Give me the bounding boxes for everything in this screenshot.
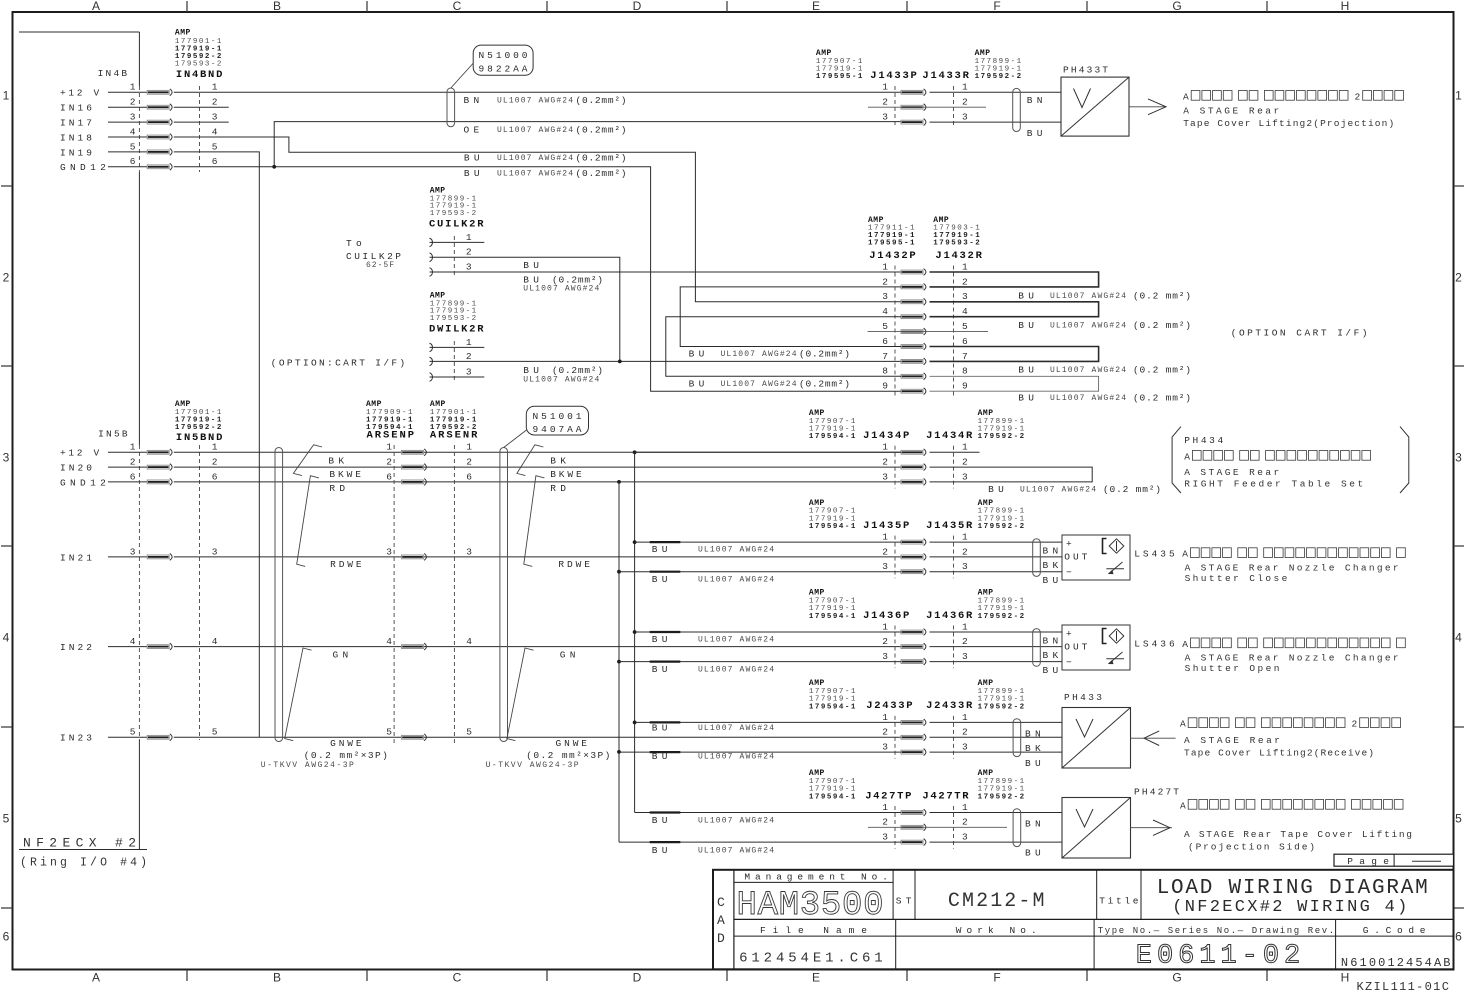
wire IN18 to J1432P pin3 (BU) (174, 137, 901, 302)
svg-text:G: G (1172, 0, 1181, 13)
wire J427TP pin1 feed from +12V bus (635, 812, 901, 814)
svg-text:5: 5 (1455, 812, 1462, 826)
svg-text:3: 3 (1455, 451, 1462, 465)
wire colour label RDWE (right) (558, 559, 590, 570)
wire label BU (GND12) UL1007 AWG#24(0.2mm2) (464, 168, 627, 179)
svg-text:5: 5 (466, 727, 472, 738)
IN5B pin 3 (IN21) label, stub and crimp (60, 546, 218, 563)
svg-text:H: H (1341, 971, 1350, 985)
wire +12V row to J1434P pin1 (174, 450, 901, 454)
svg-text:AMP: AMP (809, 589, 825, 598)
label (OPTION CART I/F) (1231, 328, 1368, 339)
svg-text:179594-1: 179594-1 (809, 613, 856, 621)
svg-text:J2433R: J2433R (926, 700, 973, 712)
wire colour label GN (left) (333, 649, 349, 660)
svg-text:1: 1 (962, 442, 968, 453)
connector pair J1436P / J1436R (AMP part lists) (809, 589, 1025, 622)
svg-text:UL1007 AWG#24: UL1007 AWG#24 (698, 575, 774, 584)
svg-text:3: 3 (882, 651, 888, 662)
wire colour label GNWE and cable spec (right) (486, 738, 611, 770)
svg-text:U-TKVV AWG24-3P: U-TKVV AWG24-3P (486, 761, 579, 770)
connector pair J1433P / J1433R (AMP part lists) (816, 49, 1022, 82)
svg-text:2: 2 (466, 457, 472, 468)
wire J1434P pin1 feed from +12V bus (635, 451, 901, 453)
svg-text:1: 1 (962, 532, 968, 543)
wire label BN UL1007 AWG#24(0.2mm2) (464, 95, 627, 106)
svg-text:4: 4 (386, 636, 392, 647)
svg-text:6: 6 (130, 471, 136, 482)
svg-text:2: 2 (212, 97, 218, 108)
enclosure box NF2ECX #2 (Ring I/O #4) (19, 32, 147, 870)
svg-text:8: 8 (962, 366, 968, 377)
title block ST CM212-M (896, 890, 1045, 913)
svg-text:UL1007 AWG#24: UL1007 AWG#24 (497, 97, 573, 106)
svg-text:IN4B: IN4B (98, 68, 128, 79)
connector pair J1435P / J1435R (AMP part lists) (809, 499, 1025, 532)
svg-text:UL1007 AWG#24: UL1007 AWG#24 (698, 636, 774, 645)
svg-text:1: 1 (962, 621, 968, 632)
svg-text:AMP: AMP (809, 409, 825, 418)
J1432P jumper pin2 to pin6 (680, 287, 901, 347)
svg-text:E: E (812, 971, 820, 985)
svg-text:179594-1: 179594-1 (809, 793, 856, 801)
svg-text:AMP: AMP (975, 49, 991, 58)
svg-text:J1436R: J1436R (926, 610, 973, 622)
wire IN22 row to J1436P pin2 (174, 646, 901, 648)
svg-text:179592-2: 179592-2 (978, 793, 1025, 801)
svg-text:(0.2 mm²×3P): (0.2 mm²×3P) (304, 750, 388, 761)
svg-text:(OPTION CART I/F): (OPTION CART I/F) (1231, 328, 1368, 339)
wire label BU (0.2mm2) UL1007 AWG#24 (DWILK2R pin2) (523, 365, 603, 384)
svg-text:F: F (993, 0, 1000, 13)
svg-text:179593-2: 179593-2 (430, 210, 477, 218)
svg-text:2: 2 (882, 457, 888, 468)
svg-text:3: 3 (466, 261, 472, 272)
svg-text:(0.2mm²): (0.2mm²) (576, 95, 627, 106)
CUILK2R pins with mating arcs (430, 232, 472, 278)
twisted pair marks left of ARSENP (285, 445, 322, 741)
svg-text:5: 5 (130, 141, 136, 152)
svg-text:2: 2 (882, 97, 888, 108)
wire label BU UL1007 AWG#24(0.2 mm2) J1432R a (1018, 290, 1191, 301)
svg-text:C: C (717, 895, 725, 910)
connector IN5B / IN5BND (AMP part list) (98, 400, 222, 444)
svg-text:(0.2mm²): (0.2mm²) (799, 378, 850, 389)
cable sheath on J1433R wires (1013, 88, 1021, 131)
input arrow into PH433 (receive) (1131, 731, 1176, 746)
svg-text:1: 1 (962, 712, 968, 723)
svg-text:(0.2mm²): (0.2mm²) (576, 153, 627, 164)
wire IN21 row to J1435P pin2 (174, 556, 901, 558)
svg-text:179592-2: 179592-2 (175, 424, 222, 432)
svg-text:(0.2mm²): (0.2mm²) (576, 168, 627, 179)
svg-text:1: 1 (212, 442, 218, 453)
wire J427TP pin3 feed from GND bus (619, 841, 901, 843)
svg-text:9: 9 (882, 381, 888, 392)
svg-text:2: 2 (962, 817, 968, 828)
cable sheath J2433R (1013, 719, 1021, 757)
wire label BU (IN18) UL1007 AWG#24(0.2mm2) (464, 153, 627, 164)
wire CUILK2R pin2 BU to J1432P pin7 junction (430, 257, 620, 361)
svg-text:4: 4 (1455, 631, 1462, 645)
svg-text:UL1007 AWG#24: UL1007 AWG#24 (1050, 322, 1126, 331)
J1432R loopback pins3-4 (930, 302, 1099, 317)
wire colour label RDWE (left) (330, 559, 362, 570)
svg-text:(0.2 mm²): (0.2 mm²) (1133, 320, 1191, 331)
svg-text:UL1007 AWG#24: UL1007 AWG#24 (721, 380, 797, 389)
wire colour label GN (right) (560, 649, 576, 660)
svg-text:AMP: AMP (978, 409, 994, 418)
svg-text:1: 1 (130, 82, 136, 93)
svg-text:HAM3500: HAM3500 (737, 887, 884, 925)
wire label BU UL1007 AWG#24 (J1436P pin2) (652, 634, 774, 645)
svg-text:A: A (1182, 639, 1188, 650)
svg-text:(Projection Side): (Projection Side) (1188, 842, 1315, 853)
svg-text:179592-2: 179592-2 (430, 424, 477, 432)
thick wire overlays at bus branches (sensor groups) (650, 542, 681, 842)
svg-text:J1435R: J1435R (926, 520, 973, 532)
svg-text:4: 4 (882, 306, 888, 317)
svg-text:UL1007 AWG#24: UL1007 AWG#24 (523, 285, 599, 294)
wire CUILK2R pin1 stub (430, 241, 485, 243)
svg-text:2: 2 (1355, 91, 1361, 102)
svg-text:AMP: AMP (809, 679, 825, 688)
svg-text:1: 1 (882, 802, 888, 813)
optical sensor LS436 with description (1062, 625, 1405, 674)
svg-text:6: 6 (1455, 930, 1462, 944)
wire label BU UL1007 AWG#24(0.2 mm2) J1432R c (1018, 365, 1191, 376)
J1432 pin5 unused stub (868, 331, 988, 333)
svg-text:J1432R: J1432R (935, 250, 982, 262)
wire IN19 vertical drop to IN23 row (174, 152, 259, 737)
twisted pair marks right of ARSENR (507, 445, 545, 741)
wire label BN at PH433T (1027, 95, 1043, 106)
svg-text:J427TR: J427TR (922, 790, 969, 802)
svg-text:A: A (1182, 549, 1188, 560)
svg-text:UL1007 AWG#24: UL1007 AWG#24 (497, 170, 573, 179)
svg-text:179592-2: 179592-2 (978, 523, 1025, 531)
output arrow from PH433T (1129, 99, 1166, 115)
wire J1436P pin1 feed from +12V bus (635, 631, 901, 633)
svg-text:4: 4 (962, 306, 968, 317)
svg-text:(0.2 mm²): (0.2 mm²) (1133, 365, 1191, 376)
svg-text:4: 4 (130, 636, 136, 647)
svg-text:J1433R: J1433R (922, 70, 969, 82)
IN5B pin 5 (IN23) label, stub and crimp (60, 727, 218, 744)
wires J1435R to LS435 (930, 542, 1063, 572)
svg-text:3: 3 (212, 546, 218, 557)
svg-text:U-TKVV AWG24-3P: U-TKVV AWG24-3P (261, 761, 354, 770)
cable sheath J1435R (1033, 539, 1041, 577)
svg-text:1: 1 (962, 261, 968, 272)
svg-text:2: 2 (466, 351, 472, 362)
svg-text:1: 1 (1455, 89, 1462, 103)
wire label BU UL1007 AWG#24(0.2mm2) at J1432P pin7 (689, 348, 850, 359)
svg-text:6: 6 (962, 336, 968, 347)
wire J1433R pin3 BU to PH433T (930, 121, 1062, 123)
svg-text:3: 3 (3, 451, 10, 465)
svg-text:UL1007 AWG#24: UL1007 AWG#24 (497, 154, 573, 163)
title block File Name 612454E1.C61 (739, 925, 883, 967)
svg-text:179592-2: 179592-2 (978, 613, 1025, 621)
svg-text:6: 6 (386, 471, 392, 482)
svg-text:1: 1 (3, 89, 10, 103)
sheet code KZIL111-01C (1357, 980, 1449, 992)
wire DWILK2R pin2 BU to J1432P pin7 (430, 360, 902, 364)
svg-text:AMP: AMP (816, 49, 832, 58)
DWILK2R pins with mating arcs (430, 337, 472, 383)
svg-text:5: 5 (3, 812, 10, 826)
svg-text:OUT: OUT (1064, 642, 1087, 653)
svg-text:A: A (1180, 719, 1186, 730)
svg-text:AMP: AMP (809, 499, 825, 508)
svg-text:A: A (92, 0, 100, 13)
svg-text:3: 3 (130, 112, 136, 123)
wire J1436P pin3 feed from GND bus (619, 661, 901, 663)
connector pair J427TP / J427TR (AMP part lists) (809, 769, 1025, 802)
svg-text:UL1007 AWG#24: UL1007 AWG#24 (698, 847, 774, 856)
svg-text:File Name: File Name (760, 925, 867, 936)
svg-text:AMP: AMP (978, 589, 994, 598)
balloon N51001 / 9407AA with leader (504, 406, 589, 447)
svg-text:UL1007 AWG#24: UL1007 AWG#24 (721, 350, 797, 359)
label (OPTION:CART I/F) (271, 358, 405, 369)
label To CUILK2P 62-5F (346, 238, 401, 270)
wire label BU UL1007 AWG#24 (J427TP pin3) (652, 845, 774, 856)
svg-text:(0.2mm²): (0.2mm²) (576, 125, 627, 136)
svg-text:2: 2 (882, 636, 888, 647)
svg-text:LOAD WIRING DIAGRAM: LOAD WIRING DIAGRAM (1157, 877, 1428, 900)
svg-text:IN5B: IN5B (98, 429, 128, 440)
svg-text:UL1007 AWG#24: UL1007 AWG#24 (698, 816, 774, 825)
title block Work No. (956, 925, 1037, 936)
balloon N51000 / 9822AA with leader (451, 45, 533, 88)
svg-text:4: 4 (212, 636, 218, 647)
svg-text:UL1007 AWG#24: UL1007 AWG#24 (1050, 394, 1126, 403)
svg-text:3: 3 (882, 112, 888, 123)
svg-text:179593-2: 179593-2 (175, 60, 222, 68)
connector pair J2433P / J2433R (AMP part lists) (809, 679, 1025, 712)
connector pair J1434P / J1434R (AMP part lists) (809, 409, 1025, 442)
svg-text:3: 3 (882, 561, 888, 572)
J1436P pin housings (dashed) and crimps (882, 621, 968, 668)
svg-text:2: 2 (962, 97, 968, 108)
svg-text:AMP: AMP (430, 186, 446, 195)
J1432R loopback pins6-7 (930, 347, 1099, 362)
svg-text:7: 7 (882, 351, 888, 362)
wire colour labels BK BKWE RD (left set) (328, 455, 361, 494)
svg-text:CM212-M: CM212-M (948, 890, 1045, 913)
wire DWILK2R pin3 stub (430, 376, 485, 378)
svg-text:C: C (453, 971, 462, 985)
wire labels BN BK BU at LS435 (1043, 546, 1059, 587)
J1432R loopback pins8-9 (930, 376, 1099, 391)
svg-text:C: C (453, 0, 462, 13)
photo sensor box PH427T (1062, 787, 1179, 859)
wire IN20 row to J1434P pin2 (174, 466, 901, 468)
svg-text:3: 3 (466, 366, 472, 377)
svg-text:AMP: AMP (175, 28, 191, 37)
cable sheath N51000 on IN4B wires (447, 88, 455, 127)
svg-text:5: 5 (130, 727, 136, 738)
title block CAD letters (717, 895, 725, 946)
svg-text:3: 3 (962, 291, 968, 302)
svg-text:Type No.— Series No.— Drawing: Type No.— Series No.— Drawing Rev. (1098, 926, 1334, 936)
svg-text:5: 5 (386, 727, 392, 738)
IN5B pin 4 (IN22) label, stub and crimp (60, 636, 218, 653)
svg-text:NF2ECX #2: NF2ECX #2 (23, 836, 136, 851)
svg-text:AMP: AMP (366, 400, 382, 409)
svg-text:UL1007 AWG#24: UL1007 AWG#24 (1050, 292, 1126, 301)
svg-text:2: 2 (962, 727, 968, 738)
J427TP pin housings (dashed) and crimps (882, 802, 968, 849)
title block G.Code N610012454AB (1341, 925, 1451, 970)
svg-text:AMP: AMP (175, 400, 191, 409)
svg-text:179595-1: 179595-1 (816, 73, 863, 81)
svg-text:6: 6 (882, 336, 888, 347)
svg-text:5: 5 (882, 321, 888, 332)
svg-text:UL1007 AWG#24: UL1007 AWG#24 (698, 753, 774, 762)
svg-text:179593-2: 179593-2 (933, 240, 980, 248)
svg-text:6: 6 (3, 930, 10, 944)
wire CUILK2R pin3 BU to J1432P pin1 (430, 271, 902, 273)
svg-text:B: B (273, 971, 281, 985)
svg-text:3: 3 (962, 832, 968, 843)
wire IN16 stub (174, 106, 229, 108)
svg-text:2: 2 (130, 457, 136, 468)
IN4B pin 4 (IN18) label, stub and crimp (60, 126, 218, 143)
bus GND12 feeding pin3 of J1435/J1436/J2433/J427TP (617, 482, 621, 842)
wire colour labels BK BKWE RD (right set) (550, 455, 582, 494)
svg-text:D: D (717, 931, 725, 946)
svg-text:1: 1 (962, 82, 968, 93)
title block Type No. Series No. Drawing Rev. E0611-02 (1098, 926, 1334, 972)
svg-text:8: 8 (882, 366, 888, 377)
wire OE branch from GND12 junction to J1433P pin3 (272, 122, 901, 169)
svg-text:2: 2 (962, 546, 968, 557)
brace PH434 description (1172, 427, 1409, 493)
svg-text:2: 2 (130, 97, 136, 108)
svg-text:1: 1 (466, 232, 472, 243)
svg-text:2: 2 (962, 636, 968, 647)
svg-text:179594-1: 179594-1 (809, 433, 856, 441)
svg-text:UL1007 AWG#24: UL1007 AWG#24 (1020, 486, 1096, 495)
wire label BU UL1007 AWG#24(0.2 mm2) J1432R d (1018, 392, 1191, 403)
svg-text:1: 1 (386, 442, 392, 453)
svg-text:6: 6 (212, 156, 218, 167)
cable sheath left of ARSENP (275, 448, 283, 742)
wire J1433R pin1 BN to PH433T (930, 91, 1062, 93)
wire J1435P pin1 feed from +12V bus (635, 541, 901, 543)
svg-text:9: 9 (962, 381, 968, 392)
svg-text:2: 2 (386, 457, 392, 468)
IN4B pin 3 (IN17) label, stub and crimp (60, 112, 218, 129)
wire IN23 row to J2433P pin2 (174, 736, 901, 738)
svg-text:62-5F: 62-5F (366, 261, 394, 270)
connector pair J1432P / J1432R (AMP part lists) (868, 216, 983, 262)
wire label BU UL1007 AWG#24 (J2433P pin3) (652, 751, 774, 762)
connector IN4B / IN4BND (AMP part list) (98, 28, 223, 81)
svg-text:4: 4 (212, 126, 218, 137)
svg-text:2: 2 (212, 457, 218, 468)
svg-text:6: 6 (212, 471, 218, 482)
svg-text:3: 3 (882, 832, 888, 843)
J427T pin2 unused stub (868, 826, 1007, 828)
svg-text:179594-1: 179594-1 (366, 424, 413, 432)
svg-text:B: B (273, 0, 281, 13)
IN5B pin 6 (GND12) label, stub and crimp (60, 471, 218, 488)
J1432P jumper pin4 to pin8 (666, 317, 901, 377)
svg-text:3: 3 (130, 546, 136, 557)
svg-text:5: 5 (962, 321, 968, 332)
wire J1435P pin3 feed from GND bus (619, 571, 901, 573)
svg-text:2: 2 (1352, 719, 1358, 730)
svg-text:2: 2 (882, 817, 888, 828)
svg-text:1: 1 (466, 337, 472, 348)
description text PH433T (A STAGE Rear Tape Cover Lifting2 Projection) (1183, 91, 1404, 129)
svg-text:2: 2 (882, 546, 888, 557)
svg-text:3: 3 (882, 742, 888, 753)
svg-text:(0.2 mm²×3P): (0.2 mm²×3P) (526, 750, 610, 761)
svg-text:UL1007 AWG#24: UL1007 AWG#24 (698, 724, 774, 733)
IN4B pin 1 (+12 V) label, stub and crimp (60, 82, 218, 99)
svg-text:1: 1 (882, 442, 888, 453)
svg-text:7: 7 (962, 351, 968, 362)
IN4B pin 2 (IN16) label, stub and crimp (60, 97, 218, 114)
svg-text:1: 1 (130, 442, 136, 453)
wire label BU (0.2mm2) UL1007 AWG#24 (CUILK2R pin3) (523, 274, 603, 293)
svg-text:A: A (1180, 800, 1186, 811)
connector pair ARSENP / ARSENR (AMP part lists) (366, 400, 478, 442)
svg-text:1: 1 (882, 82, 888, 93)
svg-text:H: H (1341, 0, 1350, 13)
svg-text:1: 1 (466, 442, 472, 453)
svg-text:5: 5 (212, 727, 218, 738)
wire J1434R pin1 stub (930, 451, 980, 453)
svg-text:4: 4 (3, 631, 10, 645)
svg-text:3: 3 (962, 651, 968, 662)
svg-text:A STAGE Rear Tape Cover Liftin: A STAGE Rear Tape Cover Lifting (1184, 829, 1412, 840)
wire GND12 (IN4B-6) to J1432P pin9 (BU) (174, 167, 901, 391)
svg-text:A: A (1184, 451, 1190, 462)
svg-text:AMP: AMP (978, 769, 994, 778)
svg-text:UL1007 AWG#24: UL1007 AWG#24 (698, 546, 774, 555)
svg-text:KZIL111-01C: KZIL111-01C (1357, 980, 1449, 992)
svg-text:(0.2 mm²): (0.2 mm²) (1133, 290, 1191, 301)
cable sheath right of ARSENR (500, 448, 508, 742)
photo sensor box PH433T (1061, 65, 1129, 137)
optical sensor LS435 with description (1062, 535, 1405, 584)
svg-text:3: 3 (212, 112, 218, 123)
svg-text:179594-1: 179594-1 (809, 703, 856, 711)
svg-text:F: F (993, 971, 1000, 985)
connector IN5B pin column (dashed housing) (199, 445, 201, 740)
svg-text:179592-2: 179592-2 (978, 703, 1025, 711)
IN4B pin 5 (IN19) label, stub and crimp (60, 141, 218, 158)
photo sensor box PH433 (1062, 692, 1131, 768)
svg-text:6: 6 (130, 156, 136, 167)
wire label BU UL1007 AWG#24(0.2 mm2) J1432R b (1018, 320, 1191, 331)
svg-text:D: D (633, 0, 642, 13)
wire labels BN BK BU at PH433 (1025, 729, 1041, 769)
wire label BU UL1007 AWG#24(0.2 mm2) at J1434R (988, 484, 1161, 495)
title block Title LOAD WIRING DIAGRAM (1099, 877, 1427, 917)
svg-text:AMP: AMP (978, 499, 994, 508)
svg-text:179592-2: 179592-2 (978, 433, 1025, 441)
svg-text:+: + (1066, 538, 1072, 549)
wires J1436R to LS436 (930, 632, 1063, 662)
svg-text:3: 3 (962, 471, 968, 482)
